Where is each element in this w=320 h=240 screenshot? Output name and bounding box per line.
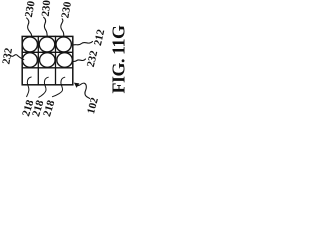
circle row2 col1 (232) — [22, 53, 37, 68]
lead line 232 left — [11, 55, 24, 60]
lead line 230 #3 — [61, 19, 64, 36]
svg-text:232: 232 — [85, 49, 101, 68]
circle row1 col2 (230) — [39, 37, 55, 52]
lead line 230 #2 — [44, 17, 48, 36]
circle row1 col3 (230) — [56, 37, 71, 52]
svg-text:218: 218 — [41, 98, 57, 118]
circle row1 col1 (230) — [22, 37, 37, 52]
hook lead 218 #3 — [52, 77, 64, 97]
outer box of array 212 — [22, 36, 73, 84]
row separator 1 — [22, 51, 73, 53]
svg-text:230: 230 — [23, 0, 38, 18]
svg-text:212: 212 — [92, 28, 108, 47]
lead line 232 right — [73, 59, 86, 62]
svg-text:232: 232 — [0, 46, 15, 65]
hook lead 218 #1 — [27, 77, 32, 97]
lead line 230 #1 — [27, 18, 32, 36]
arrowhead of 102 pointing at box corner — [74, 83, 80, 88]
lead line 212 (right top) — [73, 42, 93, 46]
lead line 102 with arrowhead — [78, 83, 90, 98]
row separator 2 — [22, 67, 73, 69]
svg-text:230: 230 — [59, 0, 74, 19]
circle row2 col2 (232) — [40, 53, 56, 68]
hook lead 218 #2 — [39, 77, 49, 97]
circle row2 col3 (232) — [57, 53, 73, 68]
column divider 2 — [55, 36, 57, 84]
svg-text:102: 102 — [85, 96, 101, 116]
svg-text:230: 230 — [40, 0, 53, 17]
svg-text:FIG. 11G: FIG. 11G — [109, 25, 127, 94]
column divider 1 — [37, 36, 39, 84]
